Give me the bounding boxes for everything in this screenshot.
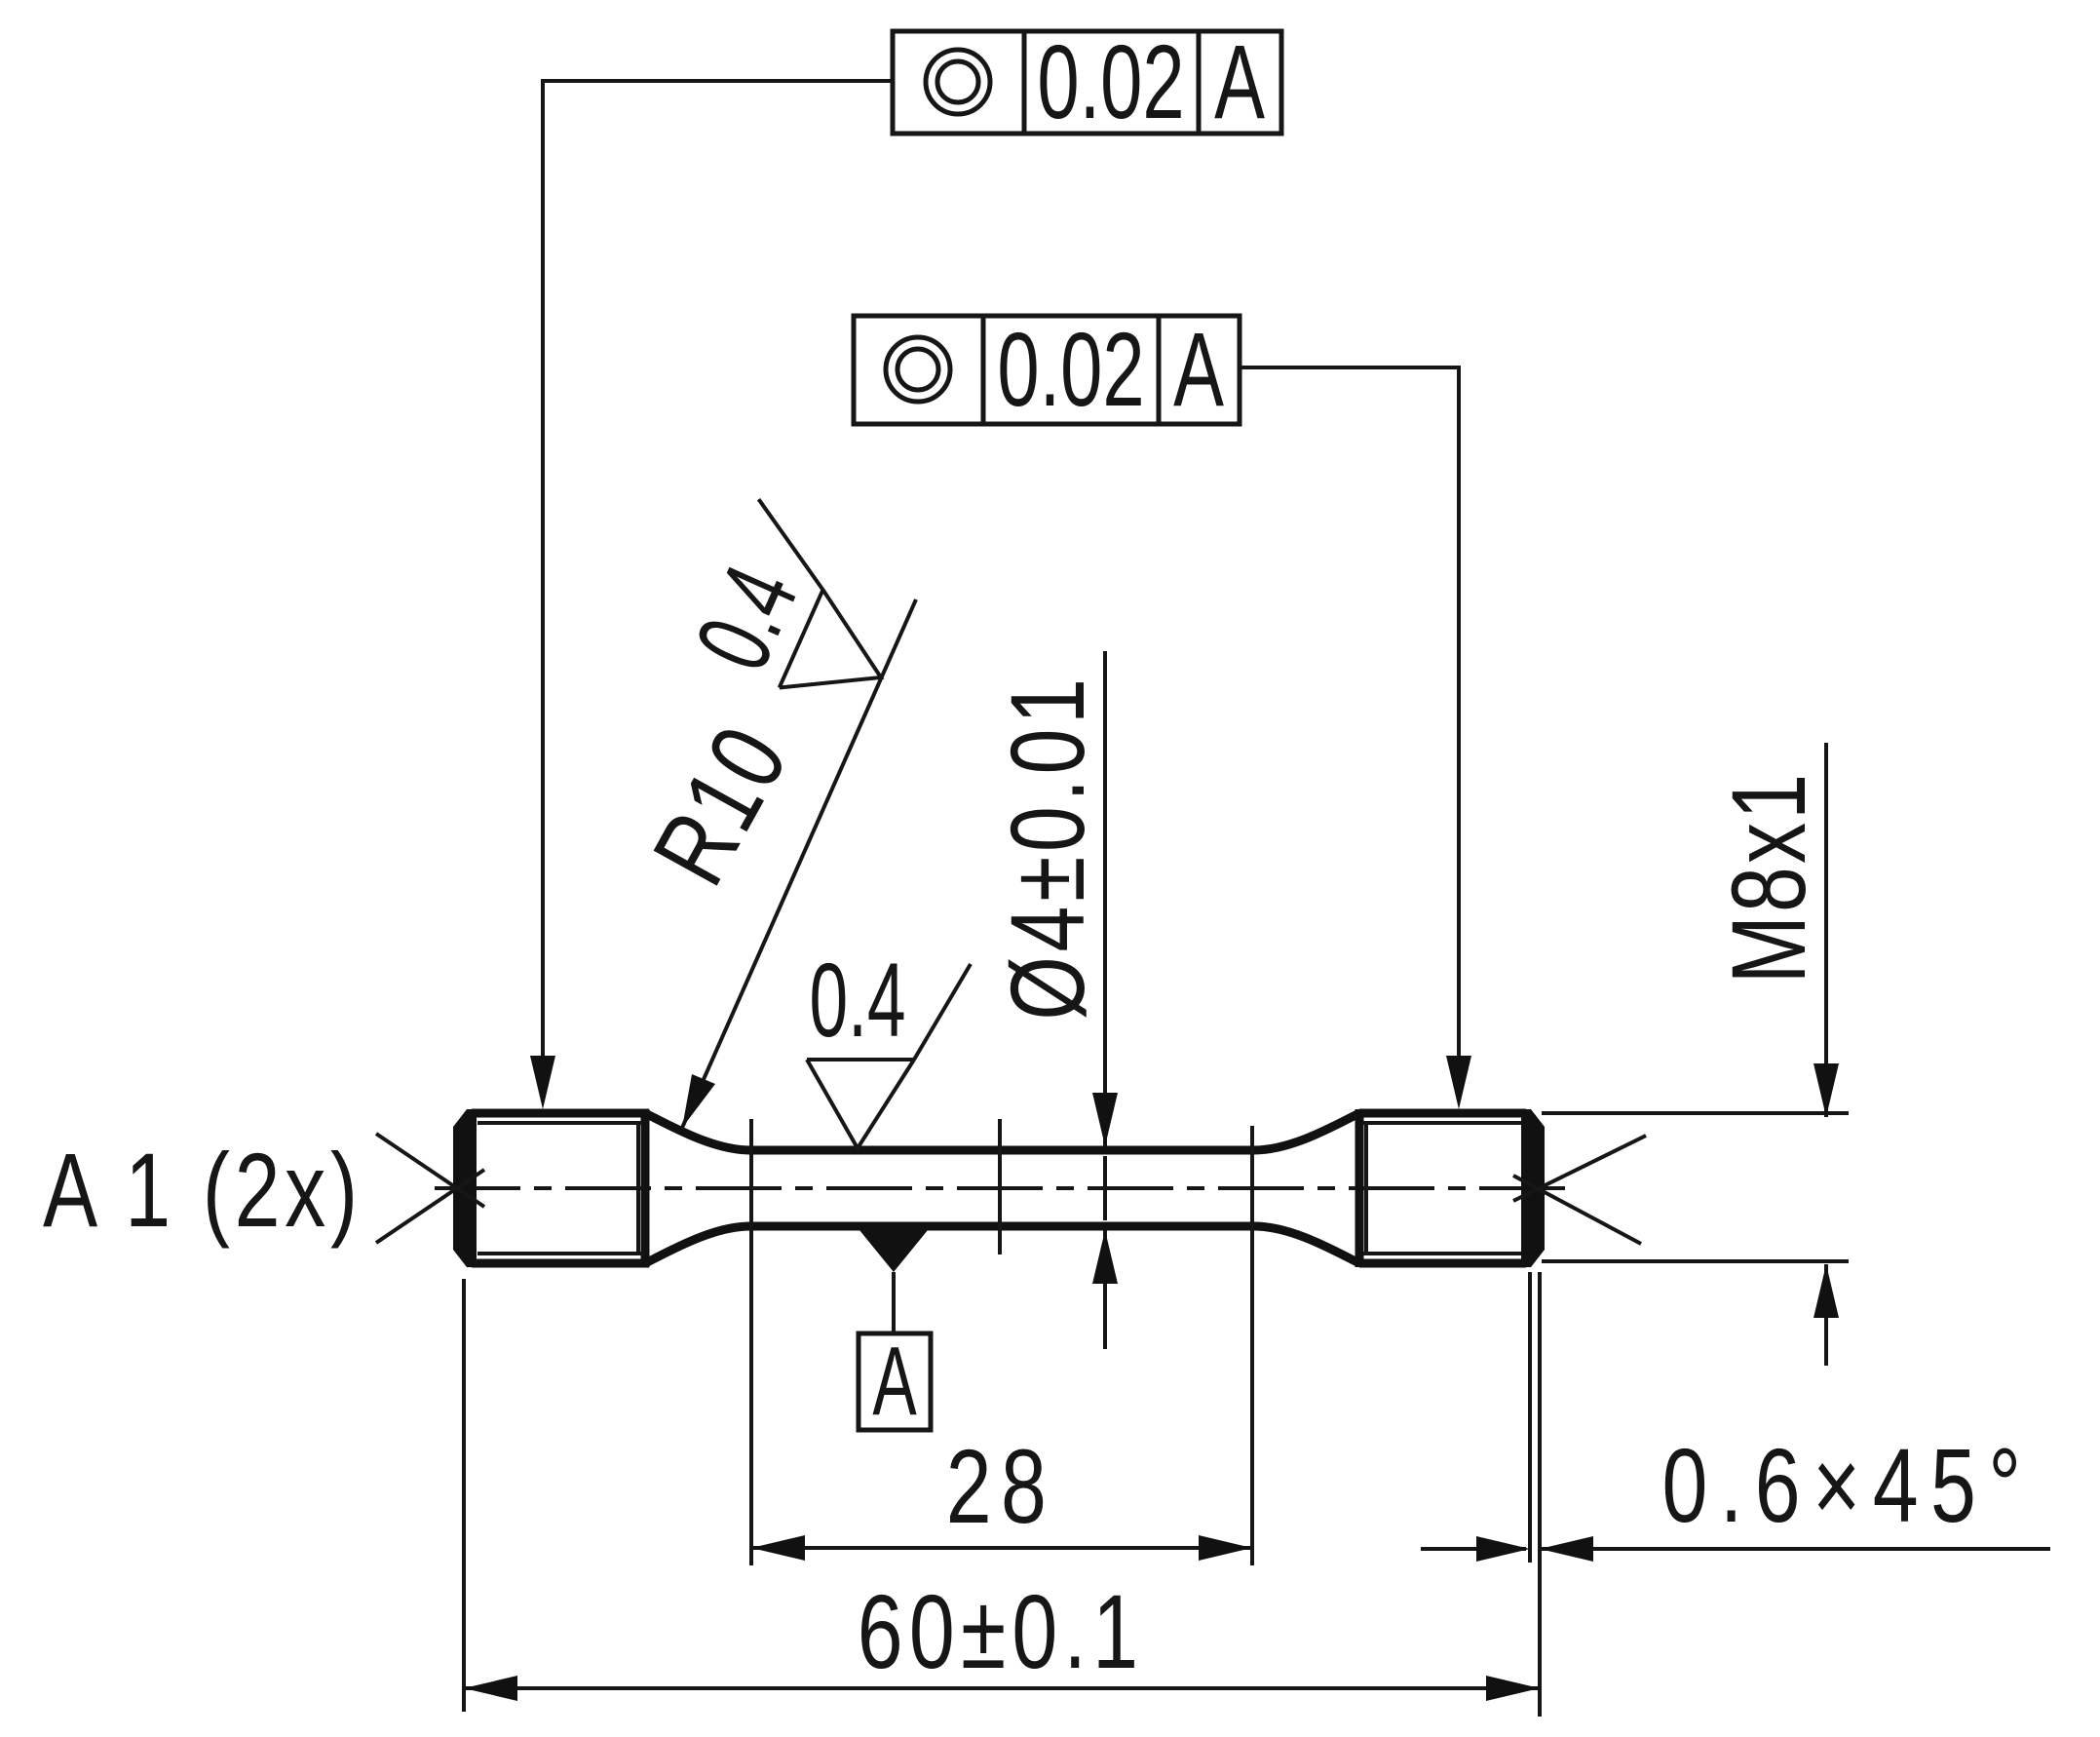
svg-text:A: A (1173, 310, 1224, 428)
60 arrowhead right (1486, 1676, 1540, 1701)
28 arrowhead left (751, 1535, 805, 1561)
svg-text:0.02: 0.02 (997, 310, 1144, 428)
M8x1 dimension line (1824, 743, 1828, 1366)
left end-face X mark (376, 1134, 484, 1243)
M8x1 arrowhead bottom (1814, 1264, 1839, 1318)
datum A triangle (859, 1230, 928, 1272)
left fillet curves (R10 transition) (645, 1113, 750, 1263)
60 dimension line (464, 1686, 1540, 1690)
svg-text:0.4: 0.4 (809, 942, 905, 1059)
frame 2 leader arrowhead (1446, 1056, 1471, 1109)
svg-text:0.02: 0.02 (1037, 22, 1184, 140)
svg-text:A: A (1214, 22, 1265, 140)
60 arrowhead left (464, 1676, 517, 1701)
left grip thread minor lines (thin) (477, 1123, 643, 1254)
frame 1 leader arrowhead (530, 1056, 555, 1109)
right fillet curves (R10 transition) (1254, 1113, 1359, 1263)
svg-text:M8x1: M8x1 (1709, 771, 1828, 984)
svg-text:28: 28 (946, 1427, 1055, 1546)
R10 leader line (682, 599, 916, 1128)
tolerance frame 2 (concentricity 0.02 A) (854, 316, 1240, 424)
chamfer dimension line left (1421, 1547, 1526, 1551)
datum A stem (892, 1272, 896, 1333)
right end-face X mark (1513, 1136, 1646, 1244)
M8x1 arrowhead top (1814, 1063, 1839, 1117)
chamfer arrowhead left (1476, 1536, 1530, 1562)
60 dimension extension lines (464, 1272, 1540, 1717)
svg-text:A 1 (2x): A 1 (2x) (43, 1131, 363, 1250)
svg-text:60±0.1: 60±0.1 (858, 1572, 1144, 1691)
chamfer arrowhead right (1540, 1536, 1593, 1562)
diameter dimension line (1103, 651, 1107, 1349)
chamfer dimension extension line (1528, 1272, 1532, 1563)
diameter arrowhead top (1092, 1093, 1118, 1146)
svg-text:A: A (872, 1328, 916, 1436)
surface finish symbol on R10 leader (rotated) (692, 499, 927, 723)
chamfer dimension line right (1540, 1547, 2050, 1551)
centerline (dash-dot axis) (435, 1186, 1569, 1190)
28 dimension extension lines (751, 1119, 1252, 1565)
28 dimension line (751, 1546, 1252, 1550)
R10 leader arrowhead (682, 1074, 715, 1128)
datum A box (859, 1333, 931, 1430)
specimen right grip outline (1359, 1109, 1526, 1267)
right grip thread minor lines (thin) (1363, 1123, 1525, 1254)
frame 1 leader (543, 81, 893, 1062)
specimen left grip end band (chamfered end face) (453, 1109, 477, 1267)
diameter arrowhead bottom (1092, 1230, 1118, 1284)
surface finish symbol on gauge (0.4) (807, 964, 971, 1148)
gauge section edges (750, 1150, 1254, 1226)
frame 2 leader (1240, 367, 1459, 1062)
28 arrowhead right (1199, 1535, 1252, 1561)
svg-text:0.6×45°: 0.6×45° (1661, 1426, 2033, 1545)
specimen right grip end band (chamfered end face) (1521, 1109, 1545, 1267)
svg-text:Ø4±0.01: Ø4±0.01 (988, 674, 1107, 1020)
tolerance frame 1 (concentricity 0.02 A) (893, 31, 1281, 134)
specimen left grip outline (472, 1109, 649, 1267)
M8x1 extension lines (1542, 1113, 1849, 1261)
